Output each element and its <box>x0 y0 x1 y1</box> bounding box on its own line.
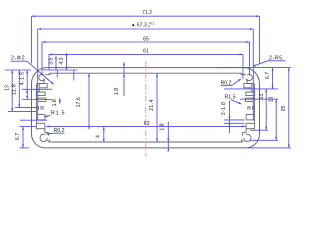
feature stub x74 <box>73 70 75 81</box>
profile outer contour <box>32 68 260 148</box>
svg-text:61: 61 <box>143 49 149 55</box>
svg-text:21.4: 21.4 <box>149 99 155 111</box>
left wall step 2 <box>36 98 46 101</box>
dimension 65 <box>42 37 250 76</box>
left wall rib <box>38 84 40 92</box>
dimension 2-1.8 right <box>221 101 245 134</box>
bottom-left screw channel slot <box>45 133 49 142</box>
extension line y99 left <box>22 99 52 101</box>
dimension 17.6 <box>76 73 90 129</box>
extension line y111.4 left <box>8 110 36 112</box>
bottom-left screw channel hole <box>40 134 47 141</box>
dimension 3.5 <box>49 56 57 70</box>
svg-text:R1.5: R1.5 <box>51 111 65 117</box>
left wall step 1 <box>36 92 45 95</box>
svg-text:4.3: 4.3 <box>59 57 65 64</box>
extension line y99 right <box>240 98 278 100</box>
dimension 4 left inner <box>96 127 105 142</box>
label R1.5 left <box>44 111 65 118</box>
dimension 21.4 <box>149 73 158 142</box>
label R0.2 right <box>221 79 242 87</box>
left wall fin A <box>40 84 47 88</box>
dimension 1.8 left wall slot <box>52 98 61 106</box>
svg-text:0: 0 <box>148 25 150 29</box>
vertical centerline <box>145 61 147 157</box>
right wall teeth <box>248 107 255 110</box>
extension line y89 left <box>22 88 52 90</box>
top-left screw boss hole phi2 <box>39 74 45 80</box>
right wall bar 1 <box>246 115 255 120</box>
top-left screw boss slot <box>36 73 49 84</box>
left wall bar 1 <box>36 115 45 120</box>
svg-text:63: 63 <box>144 121 150 127</box>
svg-text:13: 13 <box>259 94 265 100</box>
right wall fin A <box>244 84 251 88</box>
extension line y70 left <box>5 69 78 71</box>
svg-text:13: 13 <box>268 97 274 103</box>
svg-text:▲: ▲ <box>131 22 135 27</box>
svg-text:4: 4 <box>96 135 102 138</box>
svg-text:1.8: 1.8 <box>114 88 120 95</box>
dimension 13 right second <box>268 97 277 141</box>
dimension 1.8 top wall <box>114 62 125 96</box>
profile top inner surface <box>50 73 241 75</box>
svg-text:3.5: 3.5 <box>49 57 55 64</box>
bottom-right screw channel hole <box>244 134 251 141</box>
svg-text:4-1.5: 4-1.5 <box>20 72 26 86</box>
bottom-right screw channel slot <box>242 133 246 142</box>
svg-text:71.2: 71.2 <box>142 10 152 16</box>
dimension 6.7 right <box>265 68 274 89</box>
svg-text:25: 25 <box>281 106 287 112</box>
left wall teeth <box>37 107 44 110</box>
svg-text:65: 65 <box>143 37 149 43</box>
label 2-R5 corner radius <box>253 55 286 66</box>
label R0.2 left <box>46 128 65 135</box>
svg-text:1.8: 1.8 <box>52 99 58 106</box>
right wall step 2 <box>245 98 255 101</box>
profile left inner wall <box>35 84 37 129</box>
svg-text:1.8: 1.8 <box>159 123 165 130</box>
dimension 67.3 with tolerance <box>38 22 254 121</box>
extension line y107.6 left <box>15 107 36 109</box>
dimension 1.8 bottom wall <box>159 122 169 152</box>
svg-text:6.7: 6.7 <box>15 133 21 140</box>
top-right screw boss hole phi2 <box>246 74 252 80</box>
svg-text:2-Φ2: 2-Φ2 <box>11 56 25 62</box>
left wall bar 2 <box>36 123 45 132</box>
extension line y140.3 right <box>250 139 278 141</box>
feature stub x57 <box>56 70 58 78</box>
top-right screw boss slot <box>242 73 255 84</box>
dimension 4-1.5 left <box>20 70 29 99</box>
dimension 4.3 <box>59 53 67 70</box>
profile bottom inner surface <box>49 139 241 142</box>
svg-text:2-1.8: 2-1.8 <box>221 102 227 115</box>
dimension 63 <box>46 121 246 127</box>
extension line y120.2 left <box>20 119 47 121</box>
dimension 61 <box>49 49 243 79</box>
svg-text:11.8: 11.8 <box>12 84 18 95</box>
dimension 6.7 bottom-left <box>15 127 36 148</box>
svg-text:6.7: 6.7 <box>265 72 271 79</box>
right wall rib <box>251 84 253 92</box>
svg-text:17.6: 17.6 <box>76 97 82 107</box>
svg-text:67.3: 67.3 <box>137 22 147 28</box>
extension line y88.9 right <box>224 88 278 90</box>
extension line y130.2 right <box>250 129 268 131</box>
dimension 71.2 overall width <box>32 10 260 64</box>
dimension 11.8 left <box>12 70 21 108</box>
dimension 25 overall height <box>216 68 291 148</box>
right wall step 1 <box>246 92 255 95</box>
label R1.5 right <box>225 95 243 105</box>
profile right inner wall <box>254 84 256 129</box>
dimension 13 right first <box>259 89 267 130</box>
svg-text:R1.5: R1.5 <box>225 95 236 101</box>
svg-text:13: 13 <box>4 85 10 91</box>
label 2-phi2 hole callout <box>11 56 55 85</box>
right wall bar 2 <box>246 123 255 132</box>
dimension 13 left <box>4 70 13 111</box>
